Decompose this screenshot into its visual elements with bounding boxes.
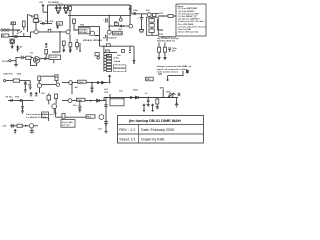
svg-text:yel core: yel core [62,124,71,126]
svg-text:Drawn by KHE: Drawn by KHE [141,137,165,141]
svg-text:R16 R17 4k99 1%: R16 R17 4k99 1% [157,40,175,43]
svg-text:4.5V: 4.5V [159,12,164,15]
svg-text:IC1 TL022CP: IC1 TL022CP [103,38,117,40]
svg-text:BC549C: BC549C [79,28,88,31]
svg-text:- C7, C9: polyester MKT: - C7, C9: polyester MKT [177,12,200,15]
svg-text:C6A: C6A [17,73,22,76]
svg-text:10u: 10u [119,90,123,92]
svg-text:220k: 220k [133,90,139,92]
svg-text:REV. : 1.2: REV. : 1.2 [119,128,135,132]
svg-text:MPSA18: MPSA18 [83,39,93,42]
svg-text:Date: February 2005: Date: February 2005 [141,128,174,132]
svg-text:- Part list: KHE: - Part list: KHE [177,28,191,31]
svg-text:FS-1: FS-1 [87,117,93,119]
svg-text:100k: 100k [78,82,84,84]
svg-text:25V: 25V [104,92,108,94]
svg-text:LAST PG.: LAST PG. [3,73,13,76]
svg-text:DB1: DB1 [146,79,151,81]
svg-text:BC549C: BC549C [79,31,88,34]
svg-text:10n: 10n [98,129,102,131]
svg-text:C9 10n: C9 10n [5,97,13,99]
svg-text:Vb 4.5V: Vb 4.5V [50,56,58,59]
svg-text:- Q1 & Q4: BC549C: - Q1 & Q4: BC549C [177,10,195,13]
svg-text:+9V: +9V [39,2,43,4]
svg-text:- Pedal set at CW's 1/4, clock: - Pedal set at CW's 1/4, clock. [177,20,205,23]
svg-text:L = 660mH, R = 18R: L = 660mH, R = 18R [26,117,47,119]
svg-text:25V: 25V [172,51,176,53]
svg-text:MPSA18: MPSA18 [93,39,103,42]
svg-text:10n: 10n [41,93,45,95]
svg-text:jim dunlop DB-01 DIME WAH: jim dunlop DB-01 DIME WAH [128,119,181,123]
svg-text:- Inserted, ribbon Fits: Test: - Inserted, ribbon Fits: Test pins [177,25,206,28]
svg-text:10u: 10u [117,55,121,57]
svg-text:4.5V: 4.5V [159,33,164,36]
svg-text:signal / all measured in effec: signal / all measured in effect [157,68,188,71]
svg-text:mode (switch down): mode (switch down) [157,70,178,73]
svg-text:- D1, D4: 1N4148 "Q7": - D1, D4: 1N4148 "Q7" [177,15,197,18]
svg-text:10u: 10u [73,105,77,107]
svg-text:4-16v: 4-16v [114,57,120,60]
svg-text:- Q7, Q3: pots 2SK30A-Y: - Q7, Q3: pots 2SK30A-Y [177,18,200,21]
svg-text:- R7, 8 are MATCHED!: - R7, 8 are MATCHED! [177,7,197,10]
svg-text:IN 1/4": IN 1/4" [2,60,9,63]
svg-text:0.4mA: 0.4mA [114,60,121,63]
svg-text:- Fits: VFW 2005E: - Fits: VFW 2005E [177,23,194,26]
svg-text:- Errors: 5675 (current): - Errors: 5675 (current) [177,31,198,34]
svg-text:Sheet: 1/1: Sheet: 1/1 [119,137,135,141]
svg-text:100k: 100k [166,91,172,93]
svg-text:Voltages measured with DMM, no: Voltages measured with DMM, no [157,65,192,68]
svg-text:100n: 100n [133,10,139,12]
svg-text:MPSA18: MPSA18 [113,32,123,35]
svg-text:Fasel inductor, yellow core: Fasel inductor, yellow core [26,113,55,116]
svg-text:DB1: DB1 [160,87,165,89]
svg-text:10u 35V: 10u 35V [45,21,54,23]
